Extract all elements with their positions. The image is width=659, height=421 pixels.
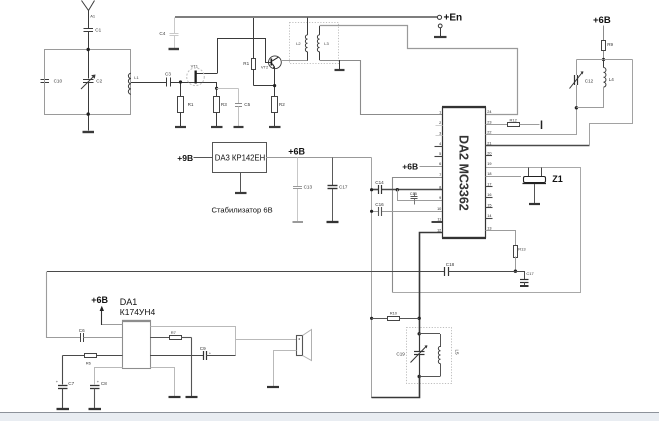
svg-text:R1: R1 — [243, 61, 249, 66]
svg-text:L5: L5 — [455, 350, 460, 356]
svg-text:23: 23 — [487, 120, 491, 124]
svg-text:14: 14 — [487, 214, 491, 218]
svg-text:6: 6 — [439, 162, 441, 166]
svg-text:R12: R12 — [510, 117, 518, 122]
svg-text:C4: C4 — [159, 31, 165, 36]
svg-text:3: 3 — [439, 132, 441, 136]
svg-text:DA3 КР142ЕН: DA3 КР142ЕН — [215, 153, 265, 162]
svg-text:9: 9 — [439, 196, 441, 200]
svg-text:+9В: +9В — [177, 153, 193, 163]
svg-text:+6В: +6В — [593, 15, 611, 26]
svg-text:R10: R10 — [390, 311, 398, 316]
svg-text:18: 18 — [487, 172, 491, 176]
svg-text:1: 1 — [439, 110, 441, 114]
svg-text:C7: C7 — [68, 381, 74, 386]
svg-text:20: 20 — [487, 152, 491, 156]
svg-text:Стабилизатор 6В: Стабилизатор 6В — [212, 205, 273, 214]
svg-text:4: 4 — [439, 142, 441, 146]
svg-text:A1: A1 — [90, 14, 96, 19]
svg-text:R2: R2 — [279, 102, 285, 107]
svg-text:C2: C2 — [96, 78, 102, 83]
svg-text:C14: C14 — [375, 180, 384, 185]
svg-text:R3: R3 — [221, 102, 227, 107]
svg-text:+6В: +6В — [402, 162, 418, 172]
svg-text:8: 8 — [439, 186, 441, 190]
svg-text:R7: R7 — [171, 330, 177, 335]
svg-text:17: 17 — [487, 183, 491, 187]
svg-text:DA2 MC3362: DA2 MC3362 — [457, 135, 471, 211]
svg-text:Z1: Z1 — [552, 174, 563, 184]
svg-text:10: 10 — [437, 207, 441, 211]
svg-text:7: 7 — [439, 173, 441, 177]
svg-text:15: 15 — [487, 204, 491, 208]
svg-text:5: 5 — [439, 152, 441, 156]
svg-text:C16: C16 — [375, 202, 384, 207]
svg-text:L4: L4 — [609, 77, 615, 82]
svg-text:C6: C6 — [79, 328, 85, 333]
svg-text:+En: +En — [444, 13, 463, 24]
svg-text:C12: C12 — [585, 79, 594, 84]
svg-text:L3: L3 — [324, 41, 329, 46]
svg-text:C18: C18 — [446, 262, 455, 267]
svg-text:21: 21 — [487, 141, 491, 145]
svg-text:2: 2 — [439, 121, 441, 125]
svg-text:19: 19 — [487, 162, 491, 166]
svg-text:R6: R6 — [86, 360, 92, 365]
svg-text:24: 24 — [487, 110, 491, 114]
svg-text:VT2: VT2 — [261, 65, 269, 70]
svg-text:C17: C17 — [339, 184, 348, 189]
svg-text:C13: C13 — [304, 184, 313, 189]
svg-text:R13: R13 — [518, 247, 526, 252]
svg-text:C9: C9 — [200, 346, 206, 351]
svg-text:VT1: VT1 — [191, 64, 199, 69]
svg-text:13: 13 — [487, 226, 491, 230]
svg-text:C10: C10 — [54, 78, 63, 83]
svg-text:C17: C17 — [526, 271, 534, 276]
svg-text:C19: C19 — [396, 352, 405, 357]
svg-text:L1: L1 — [134, 75, 139, 80]
svg-text:+6В: +6В — [91, 295, 108, 305]
svg-text:C15: C15 — [410, 191, 418, 196]
svg-text:+6В: +6В — [288, 147, 305, 157]
svg-text:11: 11 — [437, 218, 441, 222]
svg-text:16: 16 — [487, 193, 491, 197]
svg-text:L2: L2 — [296, 41, 301, 46]
svg-text:C1: C1 — [95, 28, 101, 33]
svg-text:C8: C8 — [101, 381, 107, 386]
svg-text:C5: C5 — [244, 102, 250, 107]
svg-text:R1: R1 — [188, 102, 194, 107]
svg-text:R9: R9 — [607, 42, 613, 47]
svg-text:C3: C3 — [165, 72, 171, 77]
svg-text:К174УН4: К174УН4 — [120, 307, 156, 317]
svg-text:DA1: DA1 — [120, 297, 138, 307]
